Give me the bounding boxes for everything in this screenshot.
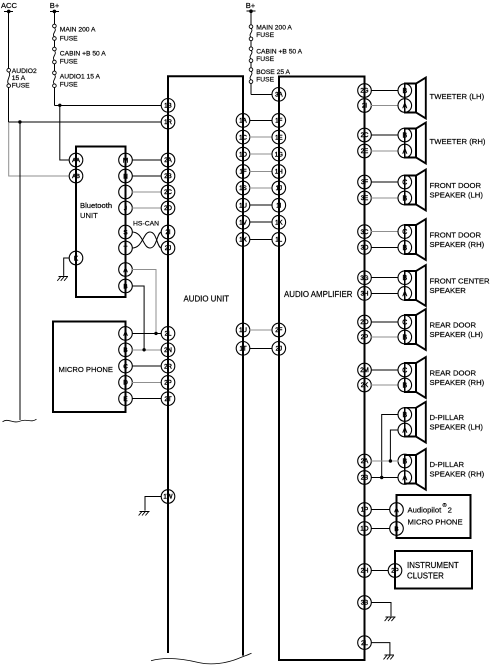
terminal 3C (amplifier right) [358, 225, 372, 239]
svg-text:K: K [74, 255, 79, 262]
svg-text:1K: 1K [275, 219, 282, 226]
svg-text:1W: 1W [163, 494, 172, 501]
wire mic E to 2T [132, 398, 162, 400]
Bluetooth unit box U1 [76, 147, 126, 298]
wire B+ to amplifier 3A [251, 93, 272, 95]
svg-text:FRONT DOOR: FRONT DOOR [430, 230, 482, 239]
ground (amplifier 3B) [385, 617, 396, 621]
wire 2E to speaker [371, 150, 398, 152]
svg-text:E: E [123, 396, 127, 403]
svg-text:S: S [123, 229, 127, 236]
wire 2A to D-pillar RH B (gray) [371, 460, 398, 462]
terminal 1B (audio unit) [161, 99, 175, 113]
wire mic C to 2R [132, 365, 162, 367]
svg-text:3B: 3B [361, 600, 368, 607]
fuse CABIN +B 50 A (left) [53, 47, 107, 65]
terminal 1R (audio unit) [161, 115, 175, 129]
power tap B+ left [50, 1, 60, 13]
terminal 1L (amplifier left) [272, 233, 286, 247]
svg-text:B+: B+ [246, 1, 256, 10]
terminal 2A (audio unit) [161, 153, 175, 167]
terminal 2P (instrument cluster) [388, 564, 402, 578]
terminal D (Micro phone) [119, 376, 133, 390]
terminal 2C (audio unit) [161, 185, 175, 199]
svg-text:2T: 2T [164, 396, 171, 403]
wire ACC to audio unit 1R [9, 121, 162, 123]
node junction on 2N wire [142, 348, 145, 351]
svg-text:3E: 3E [361, 195, 368, 202]
terminal 3G (amplifier right) [358, 271, 372, 285]
svg-text:FUSE: FUSE [12, 82, 30, 89]
terminal 1F (amplifier left) [272, 114, 286, 128]
svg-text:15 A: 15 A [12, 75, 26, 82]
terminal 1T (audio unit right) [236, 342, 250, 356]
Instrument cluster box [395, 551, 472, 589]
node junction on 1B wire [58, 104, 61, 107]
svg-text:MAIN 200 A: MAIN 200 A [256, 25, 292, 32]
wire 3C to speaker [371, 231, 398, 233]
terminal 1W (audio unit) [161, 490, 175, 504]
svg-text:2J: 2J [276, 345, 282, 352]
svg-text:1H: 1H [275, 169, 283, 176]
wire junction to terminal AA [60, 105, 70, 160]
svg-text:MICRO PHONE: MICRO PHONE [59, 365, 113, 374]
terminal 2H (amplifier right) [358, 564, 372, 578]
svg-text:SPEAKER (LH): SPEAKER (LH) [430, 190, 484, 199]
svg-text:2O: 2O [360, 319, 368, 326]
svg-text:T: T [124, 245, 128, 252]
svg-text:Audiopilot: Audiopilot [408, 506, 443, 515]
svg-text:2L: 2L [361, 640, 368, 647]
terminal B (Bluetooth) [119, 279, 133, 293]
svg-text:2C: 2C [164, 189, 172, 196]
terminal 2L (audio unit) [161, 327, 175, 341]
svg-text:CLUSTER: CLUSTER [407, 572, 444, 581]
svg-text:SPEAKER (RH): SPEAKER (RH) [430, 378, 485, 387]
svg-text:3A: 3A [275, 91, 283, 98]
svg-text:1R: 1R [164, 119, 172, 126]
svg-text:A: A [123, 331, 128, 338]
terminal M (Bluetooth) [119, 153, 133, 167]
svg-text:REAR DOOR: REAR DOOR [430, 320, 477, 329]
terminal 1A (audio unit right) [236, 114, 250, 128]
terminal J (Bluetooth) [119, 201, 133, 215]
terminal 2E (amplifier right) [358, 144, 372, 158]
terminal 2T (audio unit) [161, 392, 175, 406]
terminal 3D (amplifier right) [358, 241, 372, 255]
svg-text:TWEETER (RH): TWEETER (RH) [430, 137, 486, 146]
fuse CABIN +B 50 A (right) [249, 47, 302, 63]
terminal A (Bluetooth) [119, 263, 133, 277]
Audio unit box U2 [168, 76, 243, 655]
svg-text:D: D [123, 380, 128, 387]
svg-text:FUSE: FUSE [60, 82, 78, 89]
speaker FRONT CENTER SPEAKER [398, 265, 490, 306]
terminal 2P (amplifier right) [358, 330, 372, 344]
node junction on 1R wire [18, 120, 21, 123]
svg-text:2P: 2P [164, 380, 171, 387]
terminal A (Audiopilot mic) [390, 503, 404, 517]
terminal 1F (audio unit right) [236, 165, 250, 179]
svg-text:2I: 2I [165, 229, 170, 236]
fuse AUDIO1 15 A [53, 71, 101, 89]
terminal 1V (audio unit right) [236, 215, 250, 229]
svg-text:SPEAKER (LH): SPEAKER (LH) [430, 423, 484, 432]
svg-text:CABIN +B 50 A: CABIN +B 50 A [256, 49, 302, 56]
terminal 1E (amplifier left) [272, 130, 286, 144]
svg-text:MAIN 200 A: MAIN 200 A [60, 26, 96, 33]
Micro phone box [53, 322, 126, 413]
svg-text:FUSE: FUSE [256, 32, 274, 39]
wire I to 2C (gray) [132, 191, 162, 193]
svg-text:SPEAKER: SPEAKER [430, 286, 467, 295]
terminal 2G (amplifier right) [358, 84, 372, 98]
svg-text:Bluetooth: Bluetooth [80, 201, 112, 210]
terminal 2C (amplifier right) [358, 128, 372, 142]
audio unit bottom cut wave [151, 653, 252, 664]
wire 3E to speaker [371, 197, 398, 199]
Audiopilot 2 micro phone box [397, 495, 471, 538]
speaker FRONT DOOR SPEAKER (RH) [398, 219, 485, 260]
terminal 2K (amplifier right) [358, 378, 372, 392]
terminal 2L (amplifier right) [358, 636, 372, 650]
terminal 3E (amplifier right) [358, 191, 372, 205]
terminal 1X (audio unit right) [236, 233, 250, 247]
terminal B (Audiopilot mic) [390, 522, 404, 536]
terminal B (Micro phone) [119, 343, 133, 357]
svg-text:2F: 2F [275, 327, 282, 334]
svg-text:FRONT CENTER: FRONT CENTER [430, 276, 491, 285]
terminal 2D (audio unit) [161, 201, 175, 215]
speaker D-PILLAR SPEAKER (LH) [398, 402, 483, 443]
fuse AUDIO2 15 A [7, 68, 37, 90]
svg-text:BOSE 25 A: BOSE 25 A [256, 69, 290, 76]
svg-text:2K: 2K [361, 382, 368, 389]
svg-text:1U: 1U [239, 327, 247, 334]
wire J to 2D (gray) [132, 207, 162, 209]
svg-text:2D: 2D [164, 205, 172, 212]
wire 1P to mic A [371, 509, 390, 511]
svg-text:2A: 2A [164, 157, 172, 164]
wire 2H to cluster 2P [371, 570, 389, 572]
svg-text:J: J [124, 205, 127, 212]
svg-text:2C: 2C [361, 132, 369, 139]
node junction on 2A net [389, 459, 392, 462]
terminal N (Bluetooth) [119, 169, 133, 183]
wire 1O to mic B [371, 528, 390, 530]
svg-text:3F: 3F [361, 179, 368, 186]
terminal 1H (amplifier left) [272, 165, 286, 179]
terminal C (Micro phone) [119, 359, 133, 373]
wire mic B to 2N (gray) [132, 349, 162, 351]
svg-text:2J: 2J [165, 245, 171, 252]
speaker REAR DOOR SPEAKER (RH) [398, 357, 485, 398]
terminal 2M (amplifier right) [358, 363, 372, 377]
speaker REAR DOOR SPEAKER (LH) [398, 309, 483, 350]
node junction on 2B net [380, 476, 383, 479]
fuse MAIN 200 A (right) [249, 25, 292, 41]
svg-text:2I: 2I [362, 103, 367, 110]
svg-text:AUDIO2: AUDIO2 [12, 68, 37, 75]
svg-text:C: C [123, 363, 128, 370]
svg-text:1C: 1C [239, 134, 247, 141]
wire 1U-2F [250, 329, 273, 331]
svg-text:2: 2 [448, 506, 452, 515]
svg-text:3G: 3G [360, 275, 368, 282]
svg-text:I: I [125, 189, 127, 196]
svg-text:2B: 2B [361, 475, 368, 482]
wire 1V-1K [250, 221, 273, 223]
wire 1T-2J [250, 347, 273, 349]
svg-text:1A: 1A [239, 118, 247, 125]
terminal 1J (amplifier left) [272, 181, 286, 195]
terminal 2J (audio unit) [161, 241, 175, 255]
svg-text:HS-CAN: HS-CAN [133, 221, 159, 228]
svg-text:MICRO PHONE: MICRO PHONE [408, 517, 463, 526]
wire 1S-1J [250, 187, 273, 189]
terminal 1I (amplifier left) [272, 198, 286, 212]
svg-text:1S: 1S [239, 185, 246, 192]
terminal 3B (amplifier right) [358, 596, 372, 610]
wire 2C to speaker [371, 134, 398, 136]
wire 1F-1H [250, 171, 273, 173]
HS-CAN twisted pair S/T to 2I/2J [132, 221, 162, 249]
terminal K (Bluetooth) [69, 251, 83, 265]
svg-text:3C: 3C [361, 229, 369, 236]
svg-text:2E: 2E [361, 148, 368, 155]
terminal 1S (audio unit right) [236, 181, 250, 195]
svg-text:A: A [394, 507, 399, 514]
terminal 1O (amplifier right) [358, 522, 372, 536]
svg-text:3H: 3H [361, 291, 369, 298]
wire Bluetooth A down to 2L net (gray) [132, 270, 156, 334]
svg-text:D-PILLAR: D-PILLAR [430, 413, 465, 422]
terminal 2F (amplifier left) [272, 323, 286, 337]
ground (amplifier 2L) [384, 655, 395, 659]
svg-text:2L: 2L [165, 331, 172, 338]
svg-text:2R: 2R [164, 363, 172, 370]
terminal 2A (amplifier right) [358, 454, 372, 468]
wire 3B to ground [371, 603, 391, 617]
svg-text:FRONT DOOR: FRONT DOOR [430, 181, 482, 190]
wire 2B to D-pillar RH A [371, 477, 398, 479]
svg-text:FUSE: FUSE [256, 77, 274, 84]
svg-text:TWEETER (LH): TWEETER (LH) [430, 92, 485, 101]
wire 1X-1L [250, 238, 273, 240]
svg-text:2H: 2H [361, 568, 369, 575]
svg-text:D-PILLAR: D-PILLAR [430, 460, 465, 469]
terminal 2B (amplifier right) [358, 471, 372, 485]
speaker FRONT DOOR SPEAKER (LH) [398, 170, 483, 211]
svg-text:AB: AB [72, 174, 80, 180]
terminal A (Micro phone) [119, 327, 133, 341]
terminal E (Micro phone) [119, 392, 133, 406]
svg-text:2A: 2A [361, 458, 369, 465]
svg-text:FUSE: FUSE [256, 56, 274, 63]
wire Bluetooth B down to 2N net [132, 286, 144, 350]
terminal 1K (amplifier left) [272, 215, 286, 229]
svg-text:REAR DOOR: REAR DOOR [430, 368, 477, 377]
svg-text:1O: 1O [360, 526, 368, 533]
speaker TWEETER (RH) [398, 123, 486, 164]
terminal 2O (amplifier right) [358, 315, 372, 329]
terminal T (Bluetooth) [119, 241, 133, 255]
wire 2O to speaker [371, 321, 398, 323]
svg-text:1I: 1I [276, 202, 281, 209]
svg-text:2B: 2B [164, 173, 171, 180]
terminal 3H (amplifier right) [358, 287, 372, 301]
wire 1C-1E [250, 136, 273, 138]
svg-text:B: B [123, 347, 127, 354]
terminal 2I (audio unit) [161, 225, 175, 239]
svg-text:AUDIO1 15 A: AUDIO1 15 A [60, 74, 101, 81]
wire D-pillar LH B branch [382, 415, 399, 478]
wire 3H to speaker [371, 292, 398, 294]
terminal 2I (amplifier right) [358, 99, 372, 113]
wire B+ right vertical [250, 11, 252, 94]
svg-text:UNIT: UNIT [80, 211, 98, 220]
svg-text:INSTRUMENT: INSTRUMENT [407, 561, 459, 570]
ground (Bluetooth K) [57, 277, 68, 281]
svg-text:ACC: ACC [1, 1, 18, 10]
svg-text:1P: 1P [361, 507, 368, 514]
wire B+ to audio unit 1B [54, 104, 161, 106]
svg-text:1D: 1D [239, 151, 247, 158]
svg-text:1B: 1B [164, 102, 171, 109]
wire 2G to speaker [371, 90, 398, 92]
speaker TWEETER (LH) [398, 78, 485, 119]
svg-text:SPEAKER (RH): SPEAKER (RH) [430, 470, 485, 479]
wire 1U-1I [250, 204, 273, 206]
svg-text:FUSE: FUSE [60, 35, 78, 42]
wire junction down to continuation [19, 122, 21, 420]
terminal 2N (audio unit) [161, 343, 175, 357]
wire continuation squiggle bottom left [3, 419, 37, 422]
svg-text:1F: 1F [239, 169, 246, 176]
svg-text:CABIN +B 50 A: CABIN +B 50 A [60, 50, 106, 57]
terminal 1P (amplifier right) [358, 503, 372, 517]
wire ACC to terminal AB (gray) [9, 122, 70, 176]
terminal AA (Bluetooth) [69, 153, 83, 167]
svg-text:AA: AA [72, 158, 80, 164]
svg-text:1F: 1F [275, 118, 282, 125]
wire 1A-1F [250, 119, 273, 121]
svg-text:A: A [123, 267, 128, 274]
terminal I (Bluetooth) [119, 185, 133, 199]
terminal 2R (audio unit) [161, 359, 175, 373]
wire 1W to ground [145, 497, 162, 511]
svg-text:1J: 1J [276, 185, 282, 192]
wire D-pillar LH A branch [390, 430, 398, 461]
svg-text:1U: 1U [239, 202, 247, 209]
wire mic D to 2P (gray) [132, 381, 162, 383]
svg-text:AUDIO UNIT: AUDIO UNIT [184, 294, 230, 303]
svg-text:2M: 2M [360, 367, 368, 374]
terminal 2P (audio unit) [161, 376, 175, 390]
wire ACC vertical [8, 11, 10, 122]
svg-text:1G: 1G [275, 151, 283, 158]
wire 2I to speaker [371, 105, 398, 107]
wire 3D to speaker [371, 246, 398, 248]
svg-text:1L: 1L [275, 237, 282, 244]
svg-text:M: M [123, 157, 128, 164]
fuse MAIN 200 A (left) [53, 24, 96, 42]
wire 1D-1G [250, 153, 273, 155]
speaker D-PILLAR SPEAKER (RH) [398, 449, 485, 490]
wire 2M to speaker [371, 369, 398, 371]
svg-text:AUDIO AMPLIFIER: AUDIO AMPLIFIER [284, 290, 353, 299]
terminal 1D (audio unit right) [236, 147, 250, 161]
wire 2K to speaker [371, 384, 398, 386]
svg-text:1T: 1T [239, 345, 246, 352]
svg-text:1X: 1X [239, 237, 246, 244]
wire 2P to speaker [371, 336, 398, 338]
Audio amplifier box U3 [279, 76, 365, 660]
svg-text:B: B [123, 283, 127, 290]
terminal S (Bluetooth) [119, 225, 133, 239]
svg-text:2G: 2G [360, 88, 368, 95]
svg-text:1V: 1V [239, 219, 247, 226]
svg-text:1E: 1E [275, 134, 282, 141]
terminal 1U (audio unit right) [236, 323, 250, 337]
svg-text:FUSE: FUSE [60, 59, 78, 66]
terminal AB (Bluetooth) [69, 169, 83, 183]
terminal 1C (audio unit right) [236, 130, 250, 144]
wire B+ left vertical [53, 11, 55, 105]
svg-text:B+: B+ [50, 1, 60, 10]
svg-text:N: N [123, 173, 128, 180]
wire mic A to 2L [132, 332, 162, 334]
wire 3G to speaker [371, 277, 398, 279]
wire N to 2B [132, 175, 162, 177]
terminal 3A (amplifier left) [272, 88, 286, 102]
node junction on 2L wire [154, 332, 157, 335]
svg-text:SPEAKER (RH): SPEAKER (RH) [430, 240, 485, 249]
svg-text:2N: 2N [164, 347, 172, 354]
ground (audio unit 1W) [139, 511, 150, 515]
wire 3F to speaker [371, 181, 398, 183]
svg-text:SPEAKER (LH): SPEAKER (LH) [430, 330, 484, 339]
terminal 1U (audio unit right) [236, 198, 250, 212]
power tap B+ right [246, 1, 256, 13]
power tap ACC [1, 1, 18, 13]
terminal 1G (amplifier left) [272, 147, 286, 161]
wire 2L to ground [371, 643, 390, 655]
fuse BOSE 25 A [249, 68, 290, 84]
terminal 2J (amplifier left) [272, 342, 286, 356]
wire K to ground [64, 258, 70, 276]
terminal 2B (audio unit) [161, 169, 175, 183]
svg-text:B: B [394, 526, 398, 533]
svg-text:2P: 2P [391, 568, 398, 575]
terminal 3F (amplifier right) [358, 175, 372, 189]
svg-text:3D: 3D [361, 245, 369, 252]
svg-text:2P: 2P [361, 334, 368, 341]
wire M to 2A [132, 159, 162, 161]
